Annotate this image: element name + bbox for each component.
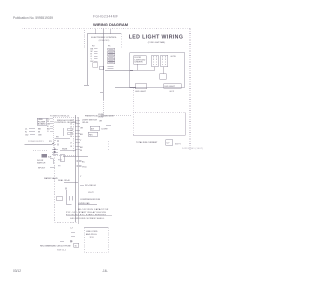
junction box on net bbox=[100, 66, 104, 70]
terminal text block bbox=[66, 208, 109, 220]
cabinet dashed vertical bbox=[54, 144, 56, 222]
small box lower left bbox=[57, 196, 63, 201]
board bottom stub line bbox=[63, 155, 88, 157]
dotted line bottom bbox=[84, 251, 108, 253]
stub to frame bbox=[94, 29, 96, 34]
svg-text:P10 W-510 PTC START WINDING: P10 W-510 PTC START WINDING bbox=[66, 214, 106, 217]
cabinet dashed bottom bbox=[55, 221, 79, 223]
power cord line bbox=[25, 143, 53, 145]
wire to LED box bbox=[105, 70, 133, 72]
board inner line bbox=[55, 137, 71, 139]
svg-text:Publication No. 5995519039: Publication No. 5995519039 bbox=[13, 16, 53, 20]
svg-text:SWITCH: SWITCH bbox=[37, 162, 46, 164]
svg-text:LINE CORD: LINE CORD bbox=[86, 231, 98, 233]
svg-text:03/12: 03/12 bbox=[13, 269, 21, 273]
right component duct box bbox=[88, 132, 98, 136]
wire to LED box lower bbox=[115, 87, 136, 89]
svg-text:J3: J3 bbox=[70, 127, 72, 129]
node tick bbox=[84, 84, 89, 86]
dotted frame right bbox=[189, 29, 191, 150]
freezer control box left dashed edge bbox=[84, 30, 86, 48]
svg-text:LED LIGHT: LED LIGHT bbox=[165, 86, 176, 88]
small marks above legend bbox=[60, 240, 64, 242]
wire row bbox=[64, 181, 78, 183]
LED box outline bbox=[130, 53, 185, 87]
svg-text:(2 ON LIGHT RAIL): (2 ON LIGHT RAIL) bbox=[148, 41, 166, 44]
svg-text:FGHG2344MF: FGHG2344MF bbox=[93, 15, 118, 19]
svg-text:OR-40: OR-40 bbox=[82, 122, 89, 124]
svg-text:SIZE 14-2: SIZE 14-2 bbox=[57, 250, 67, 252]
svg-text:WATER VALVE: WATER VALVE bbox=[44, 177, 58, 180]
svg-text:FRESH FOOD COMPARTMENT: FRESH FOOD COMPARTMENT bbox=[85, 115, 115, 118]
svg-text:C-7: C-7 bbox=[70, 228, 73, 230]
faint dashed stub bbox=[107, 141, 109, 150]
pin header dashed bbox=[73, 119, 75, 152]
right component light box bbox=[90, 126, 100, 130]
svg-text:COMPRESSOR RUN: COMPRESSOR RUN bbox=[80, 199, 101, 201]
svg-text:P12 -512- START RELAY DEVICE: P12 -512- START RELAY DEVICE bbox=[66, 211, 107, 214]
switch row B bbox=[77, 165, 79, 167]
line cord dashed enclosure left bbox=[83, 228, 85, 253]
LED lamp box right bbox=[164, 84, 182, 89]
dashes to note box bbox=[112, 114, 131, 116]
svg-text:J7: J7 bbox=[70, 143, 72, 145]
wire stub bbox=[106, 125, 111, 127]
svg-text:J5: J5 bbox=[70, 133, 72, 135]
svg-text:BK-512 RUN CAPACITOR: BK-512 RUN CAPACITOR bbox=[78, 208, 109, 211]
cord bundle rows bbox=[52, 148, 58, 150]
svg-text:15: 15 bbox=[75, 245, 77, 247]
connector P2 pin labels bbox=[91, 48, 94, 63]
freezer control box top edge bbox=[87, 33, 121, 35]
svg-text:115V: 115V bbox=[90, 237, 95, 239]
LED driver board box bbox=[134, 56, 147, 65]
note dotted box left edge bbox=[132, 88, 134, 135]
svg-text:RC-4 BK-34: RC-4 BK-34 bbox=[85, 185, 97, 187]
svg-text:BOARD: BOARD bbox=[38, 122, 46, 125]
svg-text:SPOUT: SPOUT bbox=[38, 168, 46, 170]
note symbol box bbox=[166, 140, 173, 146]
svg-text:J6: J6 bbox=[70, 136, 72, 138]
terminal line bbox=[66, 214, 112, 216]
svg-text:242193301 (1007): 242193301 (1007) bbox=[182, 148, 203, 150]
connector P2 shell bbox=[93, 63, 98, 67]
svg-text:AMPS: AMPS bbox=[175, 143, 182, 146]
ice maker block bbox=[60, 155, 65, 162]
LED connector B bbox=[161, 55, 168, 67]
stub to frame bbox=[109, 29, 111, 34]
svg-text:WIRING DIAGRAM: WIRING DIAGRAM bbox=[93, 22, 129, 27]
LED lamp box left bbox=[135, 84, 147, 89]
dotted frame top bbox=[22, 28, 190, 30]
line cord dashed enclosure right bbox=[107, 228, 109, 253]
right rows above compressor bbox=[80, 184, 84, 186]
wire row 2 bbox=[78, 204, 97, 206]
svg-text:J8: J8 bbox=[70, 146, 72, 148]
wire vertical net x103 bbox=[102, 29, 104, 100]
svg-text:RECOMMENDED CIRCUIT FUSE: RECOMMENDED CIRCUIT FUSE bbox=[40, 246, 71, 248]
wire vertical net x103 lower dashed bbox=[102, 100, 104, 113]
wire labels left of note box bbox=[98, 114, 105, 123]
svg-text:GD: GD bbox=[25, 135, 29, 137]
board wire row bbox=[60, 149, 76, 151]
svg-text:POWER SUPPLY: POWER SUPPLY bbox=[28, 141, 45, 143]
board right pin rows bbox=[75, 121, 80, 150]
dark component box bbox=[42, 154, 48, 157]
left pin labels into board bbox=[47, 118, 51, 133]
svg-text:LED LIGHT: LED LIGHT bbox=[135, 91, 146, 93]
note dotted box top bbox=[133, 112, 186, 114]
svg-text:GN GROUND SCREW SHELL: GN GROUND SCREW SHELL bbox=[70, 218, 105, 220]
LED small box bbox=[160, 74, 167, 80]
svg-text:J4: J4 bbox=[70, 130, 72, 132]
valve coil component bbox=[65, 190, 67, 204]
wire left trunk bbox=[86, 34, 88, 86]
board pin numbers left of bus bbox=[70, 120, 72, 148]
svg-text:LIGHT: LIGHT bbox=[102, 129, 109, 131]
note box bottom bbox=[133, 134, 186, 136]
note box right bbox=[185, 113, 187, 135]
main vertical bus bbox=[75, 115, 77, 222]
svg-text:J2: J2 bbox=[70, 123, 72, 125]
svg-text:DRIVER: DRIVER bbox=[135, 62, 143, 64]
connector P2 pin column bbox=[94, 49, 98, 62]
main control dashed box bbox=[53, 117, 78, 155]
svg-text:(FREEZER): (FREEZER) bbox=[99, 40, 110, 42]
LED inner wires bbox=[136, 64, 138, 70]
svg-text:DUAL OR-40: DUAL OR-40 bbox=[58, 179, 71, 182]
connector P1 pin block inner marks bbox=[109, 49, 114, 63]
svg-text:-16-: -16- bbox=[102, 269, 108, 273]
connector P1 pin block bbox=[108, 48, 115, 64]
svg-text:GY/B: GY/B bbox=[171, 56, 177, 58]
connector P1 lower pin rows bbox=[108, 66, 114, 68]
board inner bracket 1 bbox=[63, 128, 65, 136]
LED connector A bbox=[152, 55, 159, 67]
svg-text:LED LIGHT WIRING: LED LIGHT WIRING bbox=[129, 35, 184, 41]
legend box bbox=[37, 118, 47, 125]
svg-text:AND PLUG: AND PLUG bbox=[86, 233, 97, 236]
svg-text:GY-72: GY-72 bbox=[88, 192, 94, 194]
svg-text:GN: GN bbox=[38, 135, 42, 137]
secondary bus bbox=[77, 117, 79, 224]
freezer control box right dashed edge bbox=[120, 34, 122, 49]
svg-text:TOTAL RUN CURRENT: TOTAL RUN CURRENT bbox=[136, 141, 158, 144]
svg-text:ELECTRONIC CONTROL: ELECTRONIC CONTROL bbox=[91, 37, 117, 39]
svg-text:W: W bbox=[80, 150, 82, 152]
svg-text:J1: J1 bbox=[70, 120, 72, 122]
dotted lead bbox=[33, 150, 48, 152]
tick on net bbox=[100, 91, 104, 93]
svg-text:OVERLOAD: OVERLOAD bbox=[79, 202, 91, 205]
svg-text:W-BK: W-BK bbox=[62, 148, 68, 150]
switch row A bbox=[77, 160, 79, 162]
line cord dashed enclosure top bbox=[84, 227, 108, 229]
